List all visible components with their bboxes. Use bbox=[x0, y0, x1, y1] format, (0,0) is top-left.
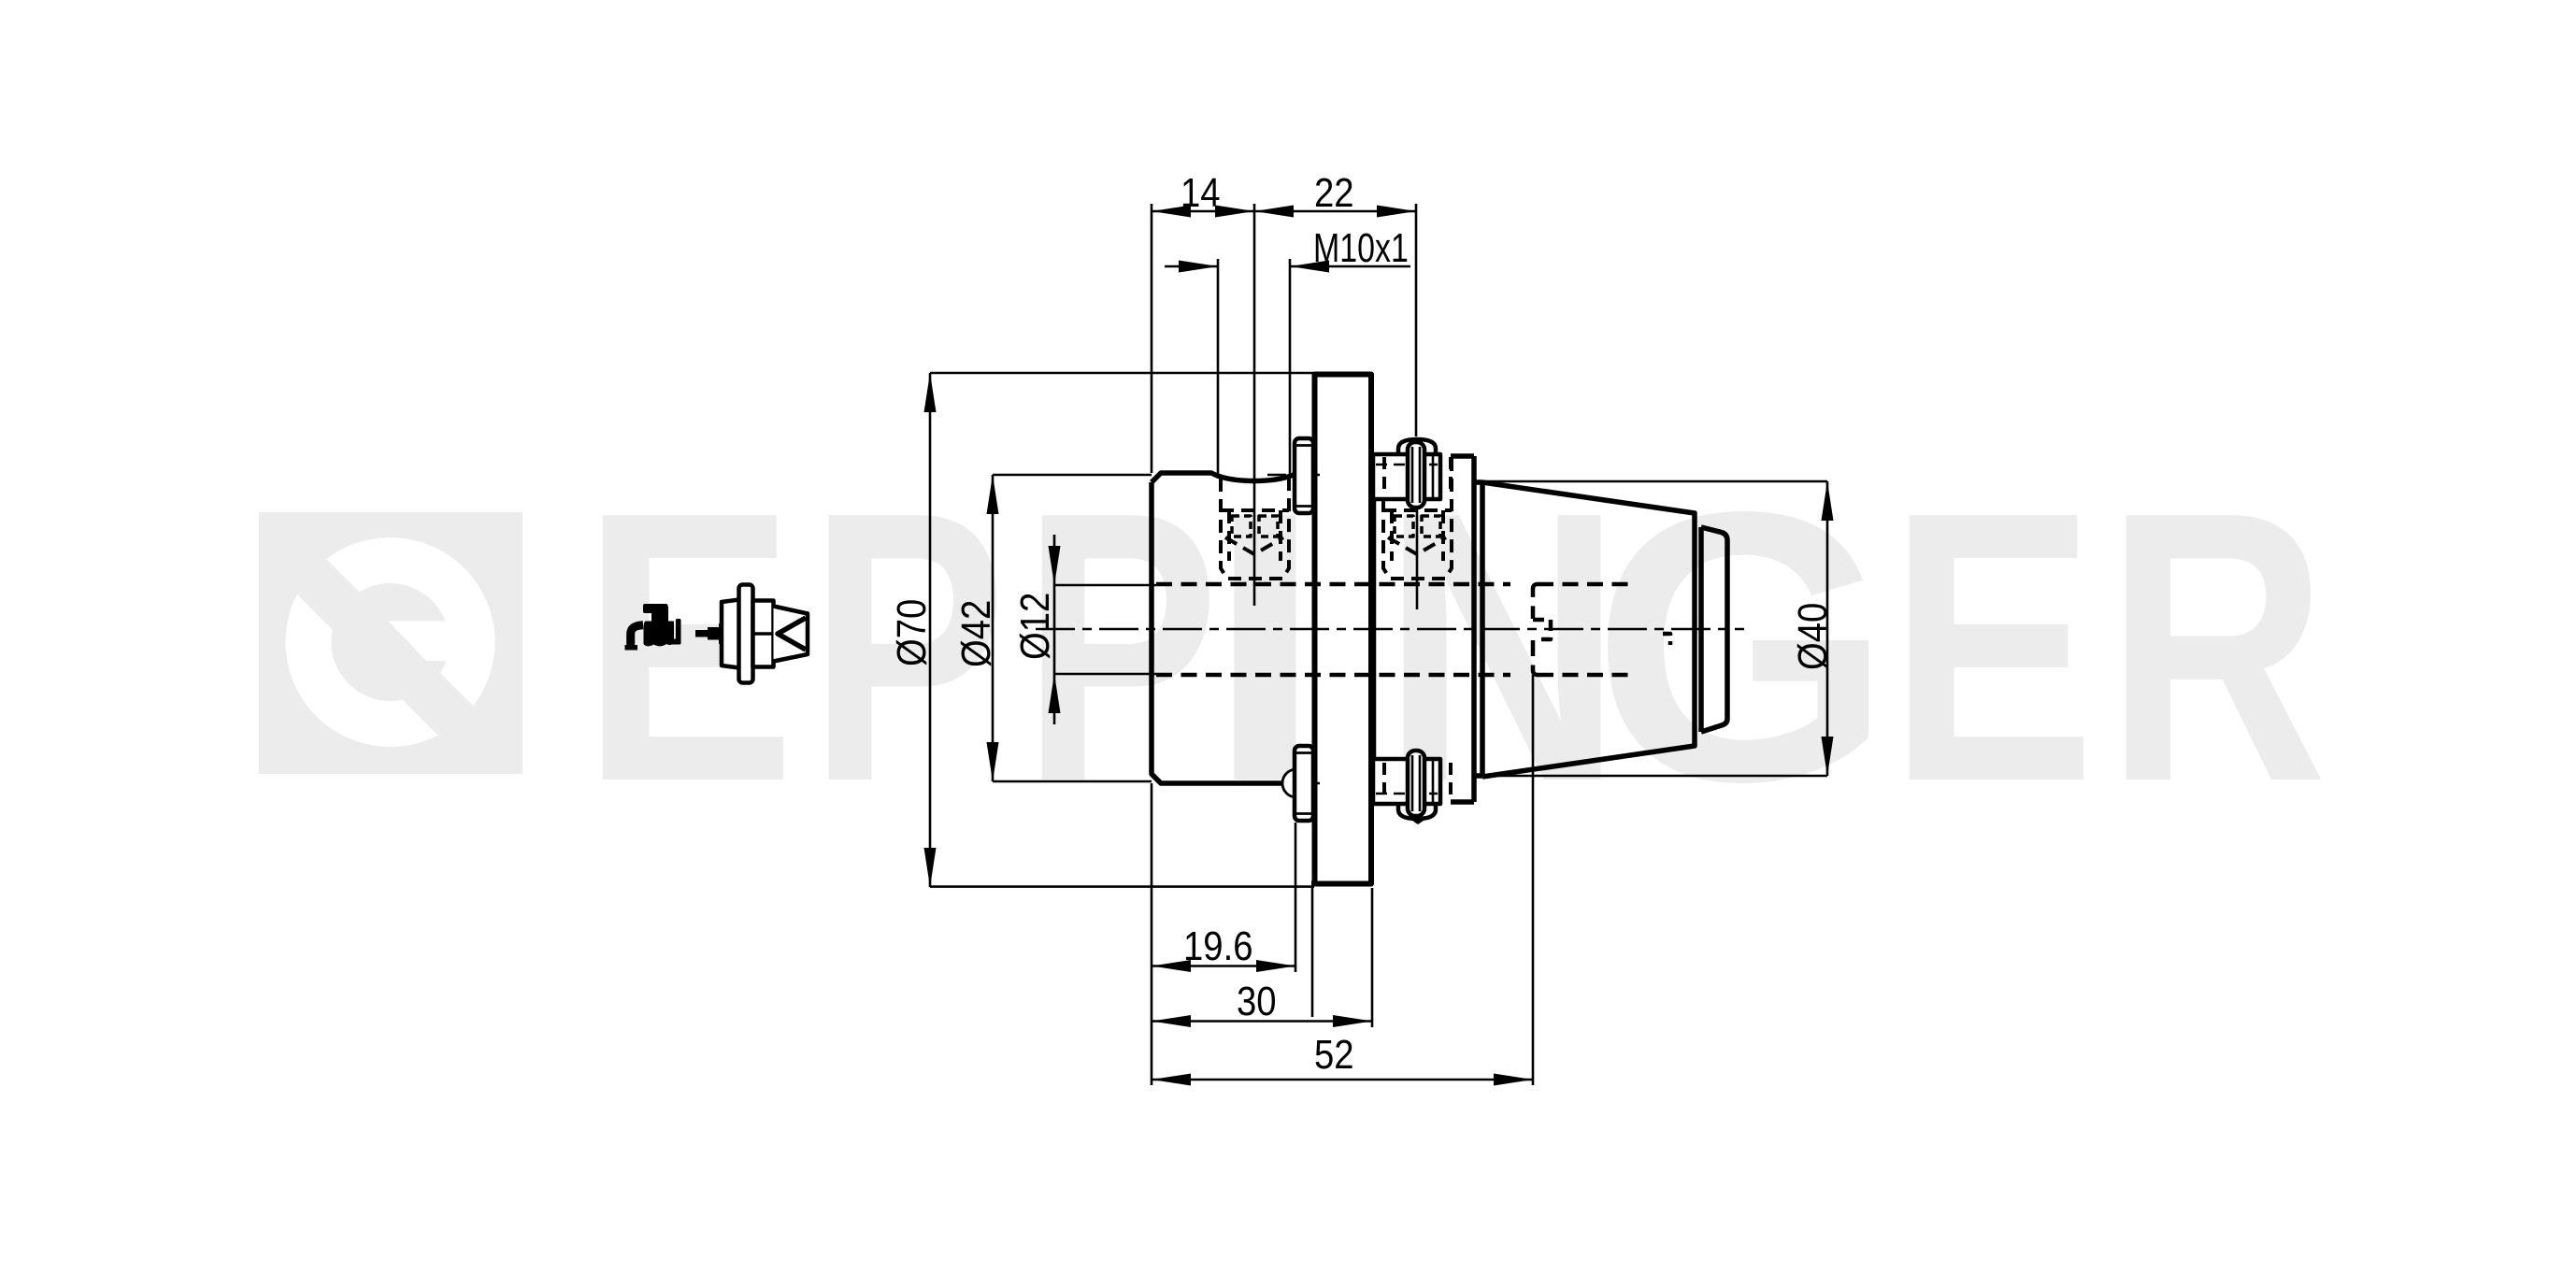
collar outline bbox=[1451, 456, 1482, 802]
dim M10x1 extension left bbox=[1217, 259, 1220, 479]
dim Ø40 extension top bbox=[1482, 480, 1827, 483]
screw top axis line bbox=[1267, 474, 1320, 476]
watermark logo e-ring bbox=[286, 537, 495, 747]
svg-text:19.6: 19.6 bbox=[1183, 923, 1253, 969]
dim 19.6 arrows bbox=[1152, 960, 1191, 972]
hidden bore end cap bbox=[1533, 584, 1538, 675]
top bolt nut face line bbox=[1432, 455, 1435, 498]
hidden bore top line bbox=[1156, 582, 1636, 587]
hidden bore tip break detail bbox=[1663, 634, 1670, 645]
dim 19.6 line bbox=[1152, 965, 1295, 967]
bottom bolt thread tip bbox=[1399, 809, 1437, 823]
bottom bolt dome bbox=[1398, 804, 1436, 819]
mini symbol centerline bbox=[720, 633, 808, 636]
dim 19.6 extension bbox=[1295, 823, 1297, 972]
plate left edge lower extension line bbox=[1311, 887, 1314, 1018]
watermark logo e-crossbar bbox=[388, 621, 494, 661]
dim 22 arrows bbox=[1254, 206, 1294, 218]
svg-text:Ø12: Ø12 bbox=[1012, 593, 1058, 660]
dim 14/22 extension middle (hole1 axis) bbox=[1253, 204, 1256, 606]
screw head top inner lines bbox=[1296, 446, 1313, 507]
left body outline bbox=[1152, 473, 1314, 783]
mini symbol right block bbox=[753, 601, 774, 667]
bottom bolt nut block bbox=[1373, 759, 1440, 804]
top bolt nut block bbox=[1373, 454, 1440, 499]
watermark group bbox=[234, 432, 2327, 877]
coolant tap icon bbox=[625, 604, 681, 651]
dim M10x1 line right bbox=[1290, 265, 1410, 268]
dim Ø40 extension bottom bbox=[1482, 775, 1827, 778]
screw head bottom circle bbox=[1282, 769, 1310, 797]
bottom bolt washer bbox=[1408, 751, 1424, 816]
mini symbol body bbox=[722, 600, 739, 668]
center line bbox=[1036, 628, 1744, 631]
svg-text:30: 30 bbox=[1237, 979, 1277, 1024]
svg-text:22: 22 bbox=[1314, 170, 1354, 216]
mini symbol bore line bbox=[753, 632, 773, 636]
svg-text:Ø40: Ø40 bbox=[1790, 603, 1836, 670]
dim Ø42 arrows bbox=[987, 475, 999, 514]
top bolt shank lines bbox=[1412, 447, 1420, 503]
svg-text:M10x1: M10x1 bbox=[1313, 226, 1409, 271]
dim M10x1 line left bbox=[1165, 265, 1218, 268]
dim 30 line bbox=[1152, 1020, 1372, 1023]
hidden bore bottom line bbox=[1156, 673, 1636, 678]
dim Ø42 extension bottom bbox=[993, 780, 1152, 783]
mini symbol chevron bbox=[778, 618, 806, 650]
hole2 M10x1 dashed outline bbox=[1383, 458, 1452, 579]
dim 30 extension bbox=[1371, 888, 1374, 1027]
dim Ø42 line bbox=[992, 475, 995, 781]
dim M10x1 arrow right bbox=[1290, 261, 1329, 273]
hidden bore step detail bbox=[1533, 620, 1551, 639]
screw bottom axis line bbox=[1267, 782, 1320, 784]
dim 14/22 extension right (hole2 axis) bbox=[1415, 204, 1418, 436]
top bolt dome bbox=[1398, 439, 1436, 454]
tip cylinder bbox=[1701, 527, 1727, 732]
svg-text:G: G bbox=[1592, 433, 1893, 862]
dim Ø12 extension top bbox=[1054, 584, 1156, 587]
dim Ø70 arrows bbox=[924, 373, 937, 412]
cone outline bbox=[1482, 482, 1695, 777]
dim 14/22 extension left bbox=[1151, 204, 1153, 473]
bottom bolt nut inner line bbox=[1376, 793, 1438, 795]
dim 30 arrows bbox=[1152, 1015, 1191, 1027]
dim Ø70 extension top bbox=[930, 372, 1314, 375]
dim 22 line bbox=[1254, 210, 1416, 213]
top bolt washer bbox=[1408, 442, 1424, 508]
collar face line bbox=[1374, 456, 1377, 802]
dim 14 line bbox=[1152, 210, 1254, 213]
dim Ø40 arrows bbox=[1822, 481, 1834, 521]
svg-text:14: 14 bbox=[1181, 170, 1221, 216]
dim M10x1 extension right bbox=[1289, 259, 1292, 477]
cone base line bbox=[1480, 482, 1485, 776]
screw head top bbox=[1295, 438, 1313, 513]
hole2 axis lower bbox=[1416, 503, 1419, 609]
dim 52 arrows bbox=[1152, 1074, 1191, 1086]
hole2 hidden edges over nut blocks bbox=[1384, 457, 1451, 801]
dim Ø70 extension bottom bbox=[930, 885, 1314, 888]
dim Ø12 line bbox=[1053, 535, 1056, 724]
top bolt nut inner line bbox=[1376, 464, 1438, 466]
dim Ø70 line bbox=[929, 373, 932, 887]
dim Ø40 line bbox=[1826, 481, 1829, 776]
flange plate bbox=[1315, 375, 1372, 884]
mini symbol funnel bbox=[774, 607, 809, 662]
dim Ø12 extension bottom bbox=[1054, 673, 1156, 676]
dim Ø12 arrows bbox=[1049, 546, 1061, 585]
screw head bottom bbox=[1295, 746, 1313, 821]
svg-text:Ø42: Ø42 bbox=[953, 600, 999, 667]
bottom bolt shank lines bbox=[1412, 755, 1420, 811]
dim M10x1 arrow left bbox=[1179, 261, 1218, 273]
svg-text:52: 52 bbox=[1314, 1032, 1354, 1078]
dim Ø42 extension top bbox=[993, 474, 1152, 477]
mini symbol flange bbox=[739, 585, 753, 683]
plate bottom edge left stub bbox=[1311, 881, 1315, 887]
dim 52 line bbox=[1152, 1079, 1533, 1081]
hole1 M10x1 dashed outline bbox=[1221, 479, 1289, 579]
bottom bolt nut face line bbox=[1432, 760, 1435, 803]
svg-text:Ø70: Ø70 bbox=[889, 599, 935, 666]
watermark text EPPINGER bbox=[581, 432, 2327, 862]
screw head bottom inner lines bbox=[1296, 753, 1313, 814]
dim 52 extension bbox=[1532, 675, 1535, 1085]
watermark logo square bbox=[234, 466, 580, 877]
watermark logo diagonal band bbox=[234, 466, 580, 877]
dim 52 left extension lower bbox=[1151, 783, 1153, 1085]
mini symbol arrow bbox=[695, 623, 727, 645]
svg-text:R: R bbox=[2106, 432, 2327, 862]
svg-text:E: E bbox=[1889, 433, 2096, 862]
dim 14 arrows bbox=[1152, 206, 1191, 218]
